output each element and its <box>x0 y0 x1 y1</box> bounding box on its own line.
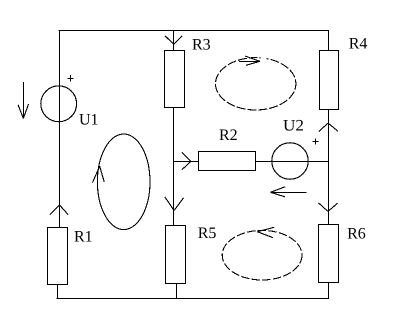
resistor R2 <box>199 152 256 171</box>
mesh arrow bottom ellipse, pointing left <box>257 227 274 237</box>
svg-text:R3: R3 <box>192 37 211 54</box>
wire middle vertical middle <box>173 108 175 227</box>
arrow left outside, pointing down <box>18 82 29 119</box>
svg-text:R5: R5 <box>198 225 217 242</box>
wire top <box>59 30 330 32</box>
U1 plus sign <box>67 75 73 81</box>
wire right vertical middle <box>328 110 330 226</box>
svg-text:R4: R4 <box>349 36 368 53</box>
svg-text:U1: U1 <box>79 111 99 128</box>
wire bottom <box>57 298 330 300</box>
arrow below U2, pointing left <box>271 187 307 197</box>
resistor R3 <box>165 51 185 108</box>
mesh arrow left ellipse, pointing up <box>92 166 104 183</box>
mesh current ellipse top <box>216 58 296 110</box>
svg-text:R2: R2 <box>219 127 238 144</box>
mesh arrow top ellipse, pointing right <box>239 56 260 65</box>
arrow above R6, pointing down <box>319 203 338 212</box>
wire left stub below R1 <box>57 284 59 299</box>
svg-text:R6: R6 <box>347 226 366 243</box>
mesh current ellipse bottom <box>222 230 302 280</box>
resistor R6 <box>319 225 339 283</box>
wire left <box>59 30 61 227</box>
arrow at top of middle branch, pointing down <box>165 36 182 45</box>
wire right stub below R6 <box>328 282 330 299</box>
arrow above R1, pointing up <box>50 205 68 215</box>
svg-text:U2: U2 <box>283 118 304 135</box>
arrow above R5, pointing down <box>165 197 184 211</box>
voltage source U1 <box>41 86 77 122</box>
arrow below R4, pointing up <box>319 123 338 132</box>
svg-text:R1: R1 <box>74 229 93 246</box>
voltage source U2 <box>272 143 308 179</box>
wire middle horizontal right <box>256 161 329 163</box>
wire middle horizontal left <box>174 161 199 163</box>
wire middle stub below R5 <box>176 283 178 299</box>
wire middle vertical upper <box>173 30 175 51</box>
arrow on middle branch, pointing right <box>182 152 191 170</box>
resistor R5 <box>166 226 186 284</box>
U2 plus sign <box>312 138 318 144</box>
mesh current ellipse left <box>97 134 150 230</box>
wire right vertical upper <box>328 30 330 50</box>
resistor R4 <box>320 51 339 110</box>
resistor R1 <box>48 228 68 285</box>
